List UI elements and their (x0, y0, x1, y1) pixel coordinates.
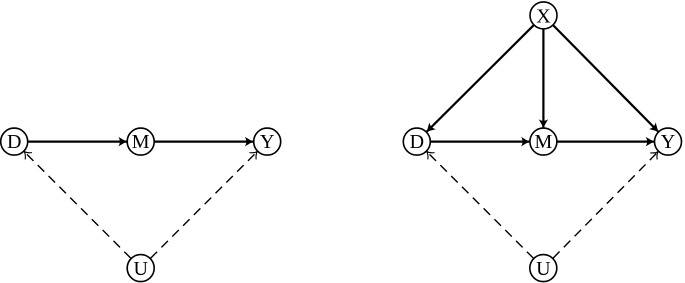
wire edge M->Y (right) (557, 141, 654, 143)
wire edge X->Y (right) (553, 25, 658, 131)
svg-text:M: M (535, 131, 553, 153)
wire edge D->M (right) (431, 141, 530, 143)
node Y (left) (254, 128, 281, 155)
svg-text:Y: Y (260, 131, 274, 153)
node Y (right) (655, 128, 682, 155)
wire edge M->Y (left) (155, 141, 254, 143)
svg-text:D: D (7, 131, 21, 153)
wire edge X->M (right) (542, 29, 544, 127)
svg-text:Y: Y (661, 131, 675, 153)
node U (left) (127, 255, 154, 282)
wire dashed edge U->D (right) (427, 152, 534, 259)
node U (right) (530, 255, 557, 282)
wire edge D->M (left) (28, 141, 127, 143)
svg-text:U: U (536, 258, 551, 280)
wire dashed edge U->D (left) (24, 152, 131, 259)
svg-text:D: D (410, 131, 424, 153)
node M (right) (530, 128, 557, 155)
svg-text:M: M (132, 131, 150, 153)
svg-text:U: U (133, 258, 148, 280)
node X (right) (530, 2, 557, 29)
svg-text:X: X (536, 5, 551, 27)
node M (left) (127, 128, 154, 155)
wire dashed edge U->Y (right) (553, 152, 658, 259)
wire dashed edge U->Y (left) (151, 152, 258, 259)
wire edge X->D (right) (427, 25, 534, 131)
node D (left) (1, 128, 28, 155)
node D (right) (403, 128, 430, 155)
